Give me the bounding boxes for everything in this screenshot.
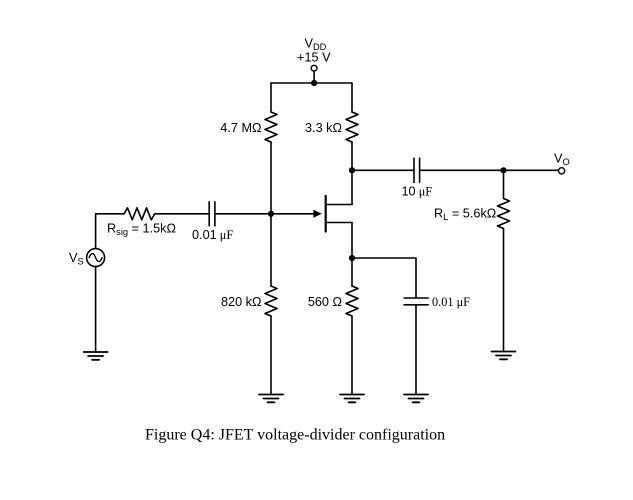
ground for 560 (340, 395, 364, 403)
resistor 4.7 M ohm (265, 112, 277, 142)
wire RL to ground (503, 229, 505, 352)
ground for 820k (259, 395, 283, 403)
junction output node (500, 167, 506, 173)
wire source vertical (351, 223, 353, 287)
capacitor 0.01 uF input (209, 202, 215, 226)
gate arrow (313, 210, 321, 218)
wire C3 to ground (415, 305, 417, 395)
resistor 3.3 k ohm (346, 112, 358, 142)
capacitor 0.01 uF bypass (404, 298, 428, 305)
wire top rail (271, 82, 352, 84)
wire Q1 drain lead (327, 204, 353, 206)
wire drain to C2 (352, 169, 413, 171)
capacitor 10 uF (414, 158, 420, 182)
jfet Q1 channel bar (325, 196, 327, 232)
svg-text:Figure Q4: JFET voltage-divide: Figure Q4: JFET voltage-divider configur… (145, 427, 445, 444)
resistor 560 ohm (346, 286, 358, 316)
resistor 820 k ohm (265, 286, 277, 316)
wire C2 to Vo (420, 169, 558, 171)
terminal Vo (559, 168, 565, 174)
resistor RL 5.6k (498, 199, 510, 229)
ground for Vs (84, 352, 108, 360)
svg-text:0.01 μF: 0.01 μF (432, 295, 470, 309)
source Vs (87, 249, 105, 267)
wire gate (96, 214, 124, 249)
wire 560 to ground (351, 316, 353, 395)
ground for RL (492, 352, 516, 360)
junction source node (349, 255, 355, 261)
svg-text:560 Ω: 560 Ω (308, 295, 342, 309)
svg-text:10 μF: 10 μF (402, 185, 433, 199)
junction gate node (268, 211, 274, 217)
junction drain node (349, 167, 355, 173)
svg-text:820 kΩ: 820 kΩ (221, 295, 262, 309)
wire R2 top lead (351, 83, 353, 112)
wire Q1 source lead (327, 222, 353, 224)
wire C1 to gate node (216, 213, 314, 215)
wire Rsig to C1 (155, 213, 209, 215)
wire left branch (270, 142, 272, 286)
svg-text:VO: VO (554, 151, 570, 167)
junction VDD node (311, 80, 317, 86)
terminal VDD (311, 65, 317, 71)
wire drain vertical (351, 142, 353, 205)
svg-text:+15 V: +15 V (297, 51, 331, 65)
ground for C3 (404, 395, 428, 403)
wire R1 top lead (270, 83, 272, 112)
wire Vs to ground (95, 267, 97, 352)
svg-text:RL = 5.6kΩ: RL = 5.6kΩ (434, 206, 496, 222)
wire VDD stub (313, 71, 315, 83)
svg-text:VS: VS (69, 251, 84, 267)
wire RL top lead (503, 170, 505, 198)
svg-text:0.01 μF: 0.01 μF (192, 228, 233, 242)
resistor Rsig (124, 208, 155, 220)
svg-text:Rsig = 1.5kΩ: Rsig = 1.5kΩ (107, 222, 176, 238)
svg-text:4.7 MΩ: 4.7 MΩ (220, 121, 261, 135)
svg-text:3.3 kΩ: 3.3 kΩ (305, 121, 342, 135)
wire 820k to ground (270, 316, 272, 395)
wire source node to C3 (352, 258, 416, 297)
